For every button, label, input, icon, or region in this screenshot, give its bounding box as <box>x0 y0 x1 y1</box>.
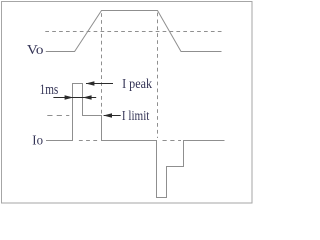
border frame <box>2 2 253 204</box>
wire dashed zero line under inrush pulse <box>79 140 100 142</box>
wire Io waveform <box>46 84 225 198</box>
node I limit arrowhead (points left) <box>103 113 112 118</box>
wire I limit arrow line <box>104 115 121 117</box>
wire dashed Vo nominal level <box>45 31 221 33</box>
svg-text:Vo: Vo <box>27 42 44 57</box>
wire I peak arrow line <box>86 83 113 85</box>
node 1ms right arrowhead (points left) <box>83 95 92 100</box>
node 1ms left arrowhead (points right) <box>65 95 74 100</box>
svg-text:I limit: I limit <box>122 109 150 124</box>
wire Vo waveform (trapezoid) <box>46 11 222 52</box>
wire dashed vertical at Vo fall corner <box>157 13 159 138</box>
svg-text:Io: Io <box>32 132 43 147</box>
node I peak arrowhead (points left) <box>86 81 95 86</box>
wire dashed vertical at Vo rise corner <box>101 13 103 115</box>
svg-text:I peak: I peak <box>122 77 152 92</box>
svg-text:1ms: 1ms <box>40 82 59 98</box>
wire dashed I limit level extension left of pulse <box>47 115 69 117</box>
wire dashed zero line under turn-off dip <box>163 140 182 142</box>
wire 1ms dimension line <box>53 97 96 99</box>
